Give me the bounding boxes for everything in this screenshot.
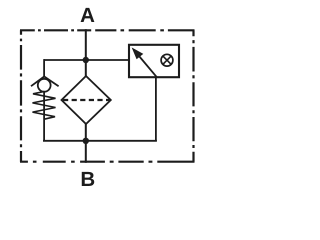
wire check valve drop	[43, 59, 45, 76]
indicator lamp X line 1	[163, 56, 171, 64]
indicator branch vertical	[155, 77, 157, 141]
wire port B vertical	[85, 141, 87, 163]
port label B	[82, 172, 95, 186]
wire junction to filter top	[85, 60, 87, 77]
enclosure dash-dot border left	[20, 30, 22, 161]
wire filter bottom to junction	[85, 123, 87, 141]
wire port A vertical	[85, 29, 87, 60]
node junction bottom	[83, 138, 89, 144]
enclosure dash-dot border right	[192, 30, 194, 161]
indicator lamp X line 2	[163, 56, 171, 64]
wire check valve to bottom	[43, 92, 45, 141]
wire bottom horizontal	[43, 140, 157, 142]
wire top horizontal	[44, 59, 129, 61]
spring	[33, 92, 56, 120]
indicator arrow shaft	[139, 56, 157, 77]
enclosure dash-dot border top	[20, 29, 195, 31]
check valve V1 seat	[31, 77, 59, 87]
port label A	[81, 8, 95, 22]
enclosure dash-dot border bottom	[20, 161, 195, 163]
indicator lamp circle	[161, 54, 173, 66]
indicator arrow head	[133, 49, 143, 59]
node junction top	[83, 57, 89, 63]
indicator U1 box	[129, 45, 179, 77]
check valve V1 ball	[38, 79, 51, 92]
filter F1 diamond	[62, 76, 111, 124]
filter element dashed line	[63, 99, 110, 101]
